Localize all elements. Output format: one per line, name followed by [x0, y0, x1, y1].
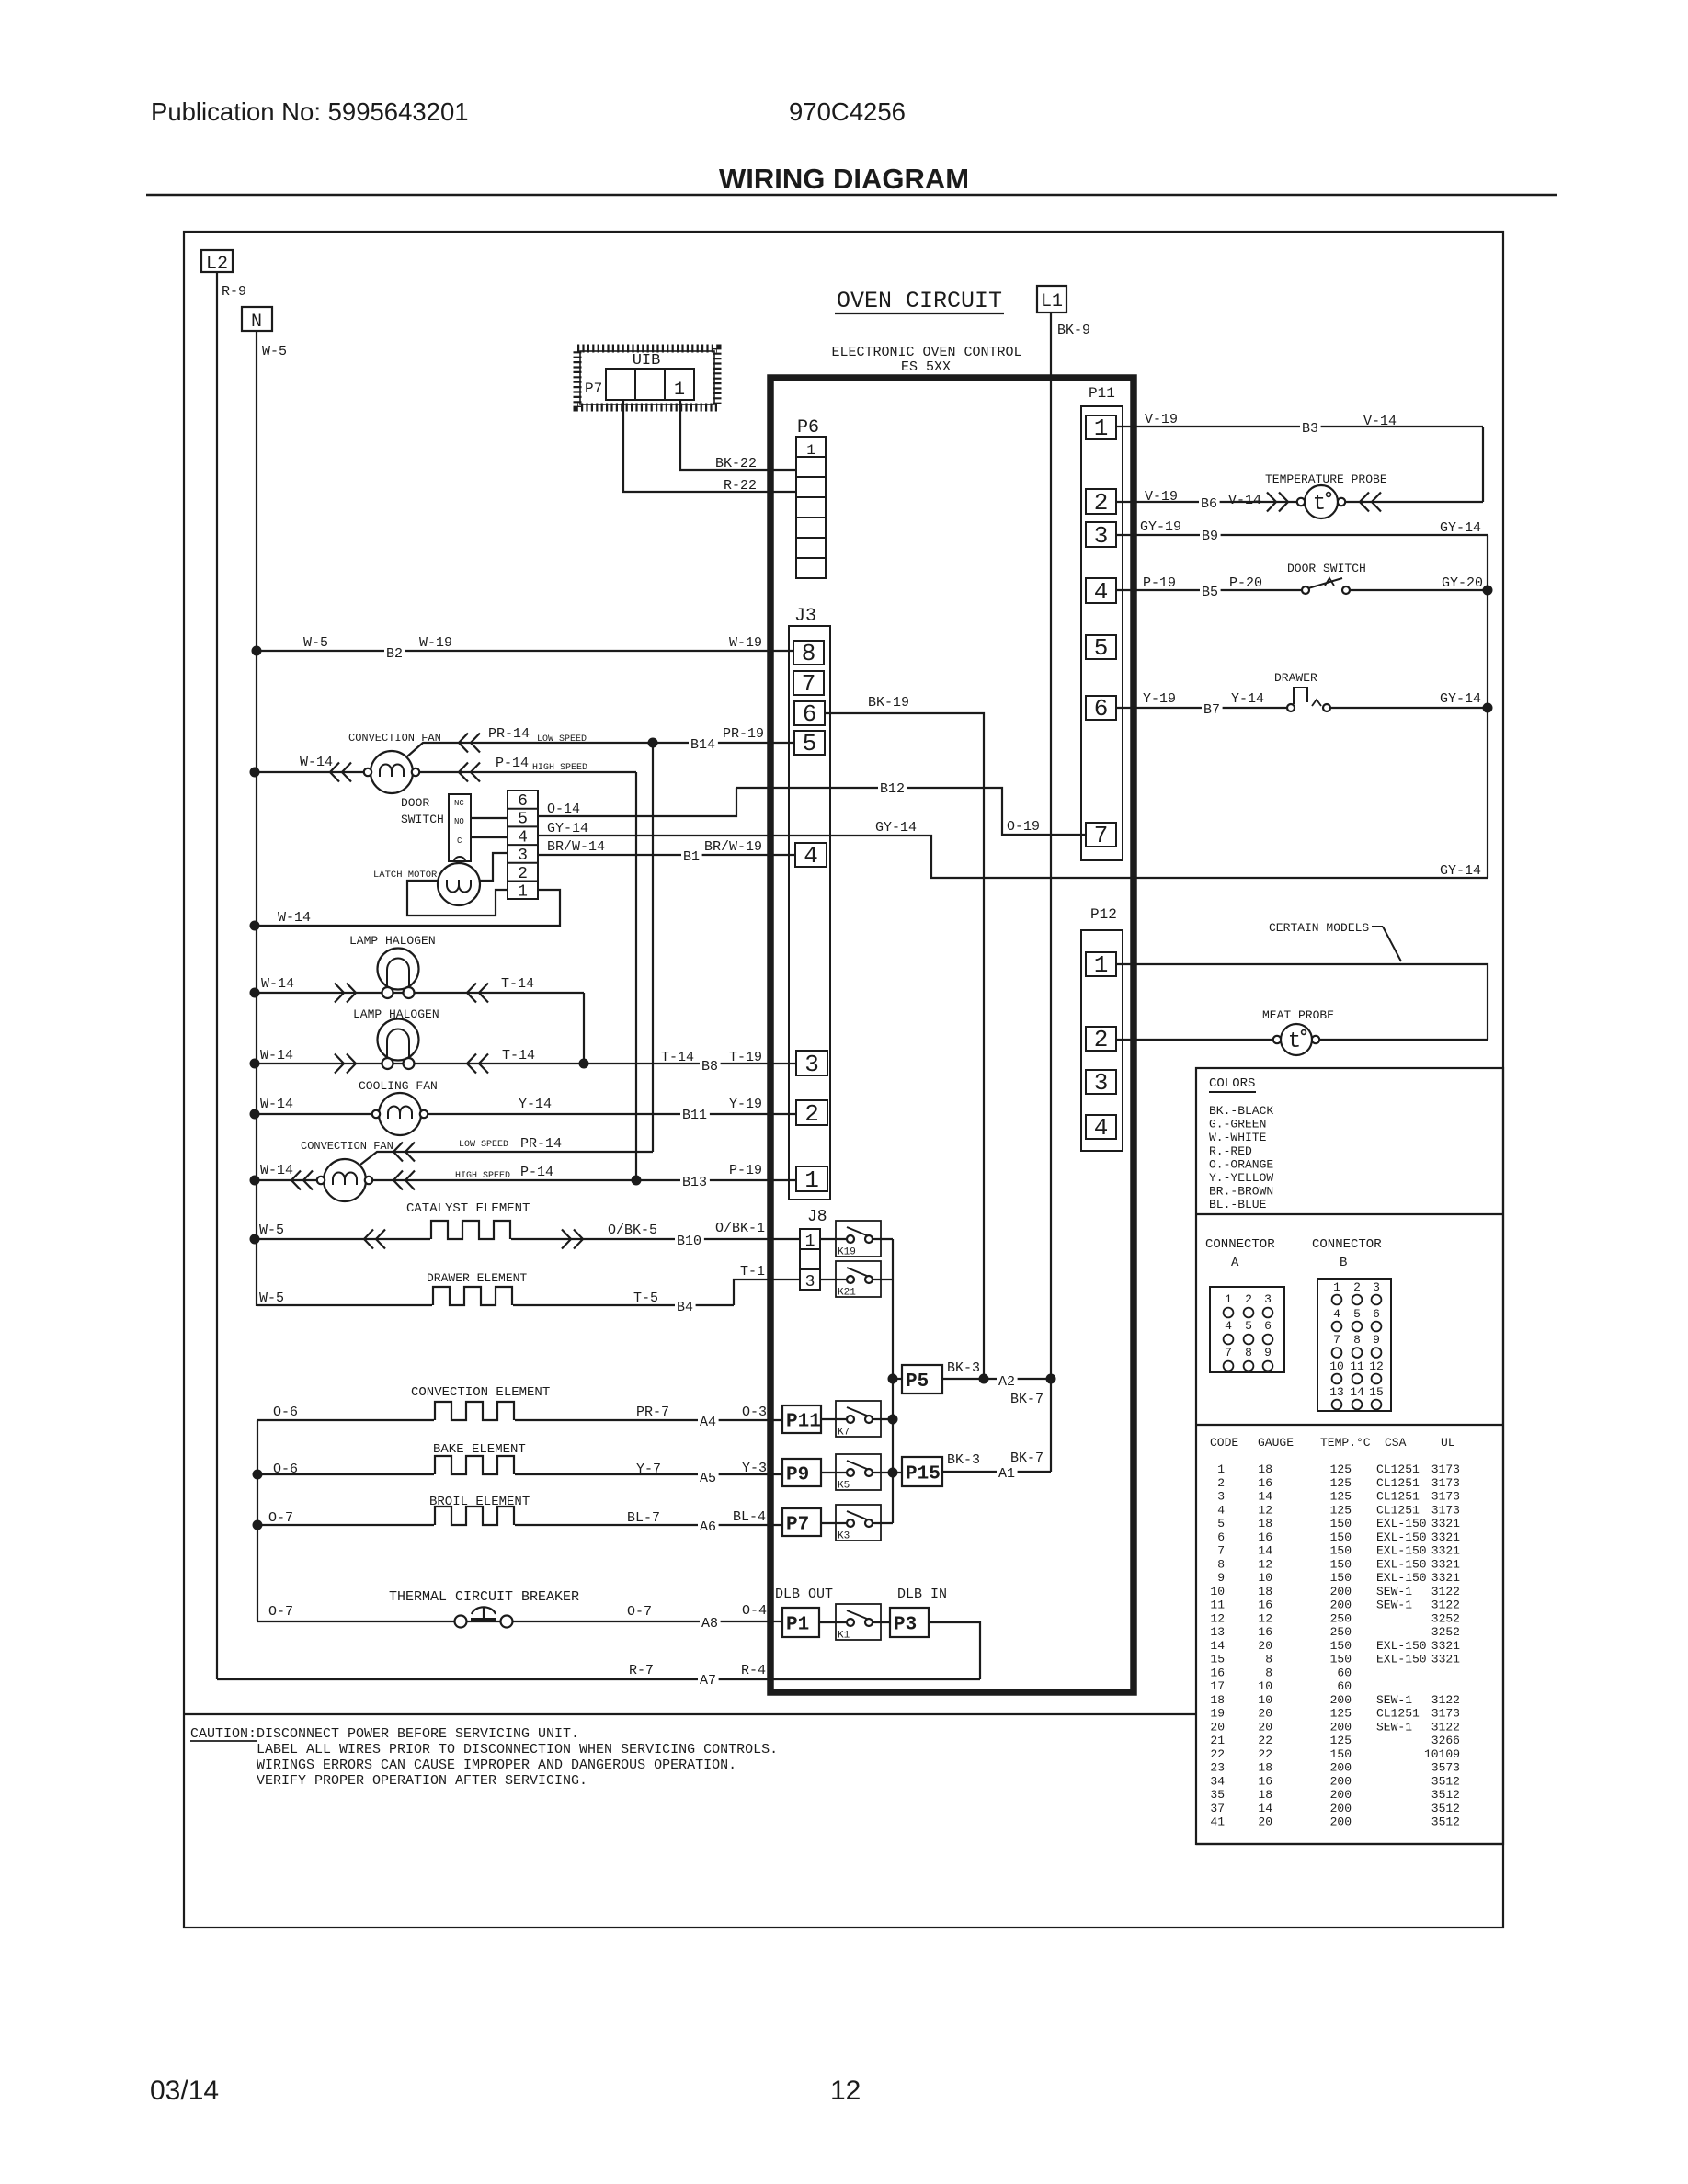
svg-text:60: 60	[1337, 1679, 1352, 1693]
connector P11 outer box	[1081, 406, 1123, 860]
wire O-14 from pin5 to B12 riser	[538, 788, 736, 816]
svg-text:DOOR: DOOR	[401, 796, 429, 810]
svg-text:K21: K21	[838, 1288, 856, 1299]
wire BK-19 from J3-6 down to A2	[825, 713, 984, 1379]
svg-text:W-14: W-14	[300, 755, 333, 770]
svg-text:O-7: O-7	[268, 1604, 293, 1620]
svg-text:BK-22: BK-22	[715, 456, 757, 472]
cooling fan	[379, 1093, 421, 1135]
wire door switch NO to pin 5	[471, 817, 508, 819]
wire J8-3 to relay K21	[820, 1279, 893, 1280]
svg-text:DRAWER: DRAWER	[1274, 671, 1317, 685]
svg-text:1: 1	[674, 380, 685, 401]
svg-text:1: 1	[804, 1166, 819, 1194]
svg-text:BR.-BROWN: BR.-BROWN	[1209, 1185, 1273, 1199]
svg-text:3122: 3122	[1431, 1693, 1460, 1707]
svg-text:O-14: O-14	[547, 802, 580, 817]
svg-text:200: 200	[1330, 1693, 1352, 1707]
svg-text:WIRING DIAGRAM: WIRING DIAGRAM	[719, 163, 969, 195]
svg-text:1: 1	[1217, 1462, 1225, 1476]
svg-text:3173: 3173	[1431, 1462, 1460, 1476]
svg-text:O-6: O-6	[273, 1405, 298, 1420]
connector P11 pin 4	[1086, 578, 1116, 603]
svg-text:DISCONNECT POWER BEFORE SERVIC: DISCONNECT POWER BEFORE SERVICING UNIT.	[257, 1726, 579, 1742]
svg-text:4: 4	[1094, 1114, 1109, 1142]
svg-text:O-7: O-7	[268, 1510, 293, 1526]
svg-text:CATALYST ELEMENT: CATALYST ELEMENT	[406, 1201, 530, 1216]
svg-text:16: 16	[1258, 1774, 1272, 1788]
svg-text:3252: 3252	[1431, 1625, 1460, 1639]
svg-text:200: 200	[1330, 1761, 1352, 1775]
svg-text:6: 6	[1217, 1530, 1225, 1544]
svg-text:200: 200	[1330, 1720, 1352, 1734]
svg-text:GY-20: GY-20	[1442, 575, 1483, 591]
wire V-19 B6 V-14 from P11-2	[1116, 501, 1297, 503]
svg-text:200: 200	[1330, 1802, 1352, 1815]
svg-text:P11: P11	[786, 1412, 821, 1433]
wire O-6 Y-7 A5 Y-3 bake element row	[257, 1473, 782, 1475]
svg-text:PR-14: PR-14	[488, 726, 530, 742]
svg-text:970C4256: 970C4256	[789, 97, 906, 126]
svg-text:DOOR SWITCH: DOOR SWITCH	[1287, 562, 1366, 575]
wire V-19 B3 V-14 from P11-1	[1116, 426, 1483, 427]
svg-text:4: 4	[1094, 578, 1109, 606]
svg-text:P-19: P-19	[1143, 575, 1176, 591]
relay K3	[836, 1505, 881, 1541]
svg-text:P1: P1	[786, 1615, 809, 1636]
svg-text:9: 9	[1264, 1346, 1272, 1359]
svg-text:B4: B4	[677, 1300, 693, 1315]
wire P5 bus to P5 box	[893, 1378, 902, 1380]
wire L2 rail R-9 down left side	[216, 272, 218, 1679]
wire O-7 BL-7 A6 BL-4 broil element row	[257, 1524, 782, 1526]
svg-text:3: 3	[1217, 1490, 1225, 1504]
svg-text:125: 125	[1330, 1734, 1352, 1747]
svg-text:3321: 3321	[1431, 1639, 1460, 1653]
svg-text:OVEN CIRCUIT: OVEN CIRCUIT	[837, 288, 1002, 314]
wire relay bus vertical	[892, 1239, 894, 1523]
svg-text:20: 20	[1210, 1720, 1225, 1734]
svg-text:35: 35	[1210, 1788, 1225, 1802]
svg-text:Y-14: Y-14	[1231, 691, 1264, 707]
svg-text:VERIFY PROPER OPERATION AFTER: VERIFY PROPER OPERATION AFTER SERVICING.	[257, 1773, 587, 1789]
svg-text:WIRINGS ERRORS CAN CAUSE IMPRO: WIRINGS ERRORS CAN CAUSE IMPROPER AND DA…	[257, 1757, 736, 1773]
wire BK-3 A2 from P5 to BK-9 bus	[942, 1378, 1051, 1380]
svg-text:3321: 3321	[1431, 1530, 1460, 1544]
svg-text:O/BK-1: O/BK-1	[715, 1221, 765, 1236]
wire P3 return down to R-4 line	[929, 1622, 980, 1679]
svg-text:UL: UL	[1441, 1436, 1455, 1450]
wire BK-22 from UIB to P6	[680, 400, 796, 470]
svg-text:BK.-BLACK: BK.-BLACK	[1209, 1104, 1273, 1118]
svg-text:150: 150	[1330, 1517, 1352, 1530]
svg-text:L1: L1	[1041, 291, 1063, 313]
connector J8 cells	[800, 1229, 820, 1290]
svg-text:12: 12	[830, 2076, 861, 2106]
svg-text:3321: 3321	[1431, 1653, 1460, 1666]
svg-text:16: 16	[1258, 1476, 1272, 1490]
node N	[242, 307, 272, 331]
svg-text:B6: B6	[1201, 496, 1217, 512]
svg-text:UIB: UIB	[633, 352, 661, 370]
door switch connector 6 pins	[508, 791, 538, 899]
wire meat probe to loop	[1319, 1039, 1488, 1041]
svg-text:P5: P5	[906, 1371, 929, 1393]
svg-text:3173: 3173	[1431, 1476, 1460, 1490]
svg-text:3321: 3321	[1431, 1544, 1460, 1558]
svg-text:B1: B1	[683, 849, 700, 865]
svg-text:14: 14	[1350, 1385, 1364, 1399]
svg-text:t: t	[1313, 492, 1326, 517]
svg-text:CONVECTION ELEMENT: CONVECTION ELEMENT	[411, 1385, 550, 1400]
svg-text:BR/W-14: BR/W-14	[547, 839, 605, 855]
svg-text:CSA: CSA	[1385, 1436, 1407, 1450]
wire V-14 down to temperature probe	[1482, 427, 1484, 502]
wire latch motor left loop to pin1	[407, 881, 508, 916]
svg-text:200: 200	[1330, 1788, 1352, 1802]
svg-text:16: 16	[1210, 1666, 1225, 1679]
svg-text:5: 5	[1094, 634, 1109, 662]
wire W-5 catalyst row to J8-1	[255, 1238, 800, 1240]
svg-text:W-5: W-5	[303, 635, 328, 651]
svg-text:L2: L2	[206, 254, 228, 275]
svg-text:6: 6	[803, 700, 817, 728]
svg-text:EXL-150: EXL-150	[1376, 1530, 1427, 1544]
convection fan upper	[371, 751, 413, 793]
svg-text:3266: 3266	[1431, 1734, 1460, 1747]
svg-text:Y-14: Y-14	[519, 1097, 552, 1112]
svg-text:SEW-1: SEW-1	[1376, 1693, 1412, 1707]
drawer switch contact	[1287, 704, 1295, 711]
svg-text:Y-7: Y-7	[636, 1462, 661, 1477]
svg-text:SEW-1: SEW-1	[1376, 1598, 1412, 1612]
svg-text:ELECTRONIC OVEN CONTROL: ELECTRONIC OVEN CONTROL	[831, 345, 1021, 360]
svg-text:B: B	[1340, 1256, 1347, 1270]
svg-text:4: 4	[1217, 1503, 1225, 1517]
svg-text:GY-14: GY-14	[1440, 863, 1481, 879]
wire O-6 PR-7 A4 O-3 convection element row	[257, 1419, 782, 1421]
wire W-14 to convection fan	[255, 771, 364, 773]
svg-text:BL.-BLUE: BL.-BLUE	[1209, 1198, 1267, 1211]
wire R-22 from UIB to P6	[623, 400, 796, 492]
wire T-1 step to J8-3	[734, 1280, 800, 1305]
pin P3 box	[890, 1608, 929, 1637]
svg-text:1: 1	[1225, 1292, 1232, 1306]
svg-text:34: 34	[1210, 1774, 1225, 1788]
connector J3 pin 5	[794, 731, 825, 755]
svg-text:150: 150	[1330, 1639, 1352, 1653]
svg-text:W-14: W-14	[278, 910, 311, 926]
caution separator line	[184, 1713, 1196, 1715]
svg-text:3122: 3122	[1431, 1720, 1460, 1734]
svg-text:A7: A7	[700, 1673, 716, 1689]
wire W-14 T-14 B8 T-19 lamp2 row to J3-3	[255, 1063, 796, 1064]
svg-text:A4: A4	[700, 1415, 716, 1430]
svg-text:Y-3: Y-3	[742, 1461, 767, 1476]
svg-text:1: 1	[1333, 1280, 1340, 1294]
wire N rail W-5 down	[256, 331, 257, 1306]
svg-text:GY-14: GY-14	[875, 820, 917, 836]
svg-text:16: 16	[1258, 1530, 1272, 1544]
svg-text:CAUTION:: CAUTION:	[190, 1726, 257, 1742]
svg-text:3173: 3173	[1431, 1503, 1460, 1517]
svg-text:T-14: T-14	[502, 1048, 535, 1064]
svg-text:150: 150	[1330, 1544, 1352, 1558]
svg-text:B2: B2	[386, 646, 403, 662]
svg-text:03/14: 03/14	[150, 2076, 219, 2106]
svg-text:BK-3: BK-3	[947, 1360, 980, 1376]
svg-text:10: 10	[1258, 1679, 1272, 1693]
svg-text:T-1: T-1	[740, 1264, 765, 1280]
svg-text:125: 125	[1330, 1476, 1352, 1490]
svg-text:8: 8	[802, 640, 816, 667]
svg-text:5: 5	[518, 811, 528, 829]
svg-text:2: 2	[518, 865, 528, 883]
svg-text:3512: 3512	[1431, 1815, 1460, 1829]
svg-text:T-5: T-5	[633, 1291, 658, 1306]
svg-text:7: 7	[802, 670, 816, 698]
legend box	[1196, 1068, 1503, 1844]
svg-text:TEMPERATURE PROBE: TEMPERATURE PROBE	[1265, 472, 1387, 486]
svg-text:3173: 3173	[1431, 1490, 1460, 1504]
svg-text:18: 18	[1258, 1761, 1272, 1775]
svg-text:EXL-150: EXL-150	[1376, 1557, 1427, 1571]
svg-text:O-3: O-3	[742, 1405, 767, 1420]
svg-text:P7: P7	[585, 381, 602, 397]
svg-text:14: 14	[1258, 1490, 1272, 1504]
svg-text:K19: K19	[838, 1247, 856, 1258]
svg-text:5: 5	[1245, 1319, 1252, 1333]
svg-text:T-14: T-14	[501, 976, 534, 992]
meat probe	[1273, 1036, 1281, 1043]
svg-text:B10: B10	[677, 1234, 701, 1249]
svg-text:125: 125	[1330, 1707, 1352, 1721]
svg-text:K1: K1	[838, 1631, 850, 1642]
svg-text:15: 15	[1369, 1385, 1384, 1399]
svg-text:3: 3	[1264, 1292, 1272, 1306]
svg-text:37: 37	[1210, 1802, 1225, 1815]
node L1	[1037, 286, 1066, 313]
svg-text:1: 1	[518, 883, 528, 902]
svg-text:C: C	[457, 836, 462, 846]
svg-text:R-7: R-7	[629, 1663, 654, 1678]
wire from P12-2 to meat probe	[1116, 1039, 1273, 1041]
wire latch motor right to pin3	[480, 853, 508, 881]
svg-text:3512: 3512	[1431, 1802, 1460, 1815]
svg-text:LAMP HALOGEN: LAMP HALOGEN	[349, 934, 436, 948]
svg-text:3321: 3321	[1431, 1571, 1460, 1585]
svg-text:O-19: O-19	[1007, 819, 1040, 835]
svg-text:125: 125	[1330, 1503, 1352, 1517]
wire P7 to K3 to bus	[821, 1522, 893, 1524]
door switch contact right side	[1302, 586, 1309, 594]
wire door switch C to pin 4	[471, 836, 508, 838]
svg-text:GAUGE: GAUGE	[1258, 1436, 1294, 1450]
svg-text:N: N	[251, 312, 262, 333]
svg-text:22: 22	[1258, 1747, 1272, 1761]
svg-text:GY-19: GY-19	[1140, 519, 1181, 535]
svg-text:41: 41	[1210, 1815, 1225, 1829]
svg-text:17: 17	[1210, 1679, 1225, 1693]
svg-text:W-19: W-19	[729, 635, 762, 651]
svg-text:HIGH SPEED: HIGH SPEED	[455, 1171, 510, 1181]
svg-text:MEAT PROBE: MEAT PROBE	[1262, 1008, 1334, 1022]
svg-text:2: 2	[1094, 1026, 1109, 1053]
connector B pin grid	[1317, 1279, 1391, 1411]
wire W-14 Y-14 B11 Y-19 cooling fan row to J3-2	[255, 1113, 796, 1115]
legend divider connectors/table	[1196, 1424, 1503, 1426]
svg-text:11: 11	[1210, 1598, 1225, 1612]
svg-text:EXL-150: EXL-150	[1376, 1544, 1427, 1558]
svg-text:V-14: V-14	[1363, 414, 1397, 429]
svg-text:5: 5	[1217, 1517, 1225, 1530]
wire BK-3 A1 BK-7 from P15	[942, 1471, 1051, 1473]
svg-text:W-14: W-14	[261, 976, 294, 992]
svg-text:EXL-150: EXL-150	[1376, 1517, 1427, 1530]
svg-text:W-19: W-19	[419, 635, 452, 651]
svg-text:20: 20	[1258, 1707, 1272, 1721]
svg-text:P15: P15	[906, 1464, 941, 1485]
svg-text:O-7: O-7	[627, 1604, 652, 1620]
connector J3 pin 2	[796, 1100, 827, 1125]
pin P11 box	[782, 1405, 821, 1433]
svg-text:EXL-150: EXL-150	[1376, 1653, 1427, 1666]
svg-text:7: 7	[1333, 1333, 1340, 1347]
svg-text:BK-7: BK-7	[1010, 1392, 1044, 1407]
relay K21	[836, 1261, 881, 1297]
svg-text:LATCH MOTOR: LATCH MOTOR	[373, 870, 438, 881]
wire temperature probe to V-14 riser	[1345, 501, 1483, 503]
svg-text:Y.-YELLOW: Y.-YELLOW	[1209, 1171, 1273, 1185]
wire GY-20 to riser	[1350, 589, 1488, 591]
wire W-14 lamp1 row	[255, 992, 584, 994]
electronic oven control box ES 5XX thick border	[770, 378, 1134, 1692]
svg-text:3173: 3173	[1431, 1707, 1460, 1721]
pin P7 box	[782, 1508, 821, 1536]
convection element	[434, 1418, 515, 1423]
svg-text:1: 1	[1094, 951, 1109, 979]
pin P15 box	[902, 1457, 942, 1486]
svg-text:T-14: T-14	[661, 1050, 694, 1065]
node L2	[201, 250, 233, 272]
svg-text:150: 150	[1330, 1530, 1352, 1544]
svg-text:W-14: W-14	[260, 1163, 293, 1178]
wire P9 to K5	[821, 1472, 902, 1473]
svg-text:2: 2	[1217, 1476, 1225, 1490]
connector A pin grid	[1210, 1287, 1284, 1372]
svg-text:10: 10	[1258, 1693, 1272, 1707]
svg-text:18: 18	[1258, 1585, 1272, 1598]
svg-text:B5: B5	[1202, 585, 1218, 600]
svg-text:V-14: V-14	[1228, 493, 1261, 508]
svg-text:NO: NO	[454, 817, 464, 826]
svg-text:O.-ORANGE: O.-ORANGE	[1209, 1157, 1273, 1171]
svg-text:NC: NC	[454, 799, 464, 808]
svg-text:BL-7: BL-7	[627, 1510, 660, 1526]
thermal circuit breaker	[455, 1616, 467, 1628]
svg-text:3: 3	[518, 847, 528, 865]
svg-text:COLORS: COLORS	[1209, 1076, 1255, 1091]
svg-text:B13: B13	[682, 1175, 707, 1190]
connector P12 pin 3	[1086, 1070, 1116, 1094]
svg-text:6: 6	[1373, 1307, 1380, 1321]
svg-text:1: 1	[805, 1233, 815, 1251]
svg-text:3512: 3512	[1431, 1774, 1460, 1788]
svg-text:R-9: R-9	[222, 284, 246, 300]
connector P11 pin 7	[1086, 823, 1116, 847]
convection fan lower	[324, 1159, 366, 1201]
svg-text:SEW-1: SEW-1	[1376, 1720, 1412, 1734]
svg-text:16: 16	[1258, 1598, 1272, 1612]
svg-text:BK-3: BK-3	[947, 1452, 980, 1468]
svg-text:Y-19: Y-19	[1143, 691, 1176, 707]
svg-text:11: 11	[1350, 1359, 1364, 1373]
drawer element	[432, 1303, 513, 1308]
svg-text:4: 4	[1333, 1307, 1340, 1321]
svg-text:DLB OUT: DLB OUT	[775, 1587, 833, 1602]
connector P6 cells	[796, 437, 826, 578]
connector P11 pin 3	[1086, 522, 1116, 547]
legend bottom empty box line	[1196, 1843, 1503, 1845]
svg-text:22: 22	[1258, 1734, 1272, 1747]
svg-text:12: 12	[1258, 1557, 1272, 1571]
svg-text:BL-4: BL-4	[733, 1509, 766, 1525]
svg-text:12: 12	[1210, 1611, 1225, 1625]
svg-text:LABEL ALL WIRES PRIOR TO DISCO: LABEL ALL WIRES PRIOR TO DISCONNECTION W…	[257, 1742, 778, 1757]
connector J3 pin 1	[796, 1166, 827, 1191]
svg-text:3: 3	[1373, 1280, 1380, 1294]
wire BR/W-14 B1 BR/W-19 from pin3 to J3-4	[538, 854, 795, 856]
svg-text:8: 8	[1245, 1346, 1252, 1359]
svg-text:150: 150	[1330, 1571, 1352, 1585]
svg-text:GY-14: GY-14	[1440, 520, 1481, 536]
svg-text:GY-14: GY-14	[1440, 691, 1481, 707]
svg-text:W-5: W-5	[262, 344, 287, 359]
svg-text:18: 18	[1210, 1693, 1225, 1707]
lamp halogen upper	[378, 949, 419, 990]
title rule	[146, 194, 1557, 197]
svg-text:2: 2	[1353, 1280, 1361, 1294]
svg-text:W-14: W-14	[260, 1048, 293, 1064]
component UIB user interface board	[580, 351, 714, 404]
svg-text:13: 13	[1329, 1385, 1344, 1399]
svg-text:P-19: P-19	[729, 1163, 762, 1178]
pin P5 box	[902, 1365, 942, 1393]
svg-text:SEW-1: SEW-1	[1376, 1585, 1412, 1598]
svg-text:V-19: V-19	[1145, 489, 1178, 505]
svg-text:A5: A5	[700, 1471, 716, 1486]
svg-text:K3: K3	[838, 1531, 850, 1542]
svg-text:16: 16	[1258, 1625, 1272, 1639]
svg-text:W-5: W-5	[259, 1223, 284, 1238]
svg-text:BK-19: BK-19	[868, 695, 909, 711]
wire BK-9 from L1 down to A2/A1 bus	[1050, 313, 1052, 1472]
wire from P12-1 certain models loop	[1116, 964, 1488, 1040]
svg-text:P3: P3	[894, 1615, 917, 1636]
outer border box	[184, 232, 1503, 1928]
wire O-7 O-7 A8 O-4 thermal breaker row	[257, 1621, 782, 1622]
svg-text:HIGH SPEED: HIGH SPEED	[532, 763, 587, 773]
relay K7	[836, 1401, 881, 1437]
svg-text:K5: K5	[838, 1481, 850, 1492]
connector P11 pin 6	[1086, 696, 1116, 720]
connector P12 outer box	[1081, 930, 1123, 1151]
wire PR-14 low speed B14 PR-19 to J3-5	[407, 743, 794, 756]
svg-text:22: 22	[1210, 1747, 1225, 1761]
svg-text:4: 4	[518, 828, 528, 847]
svg-text:Publication No: 5995643201: Publication No: 5995643201	[151, 97, 469, 126]
svg-text:125: 125	[1330, 1490, 1352, 1504]
